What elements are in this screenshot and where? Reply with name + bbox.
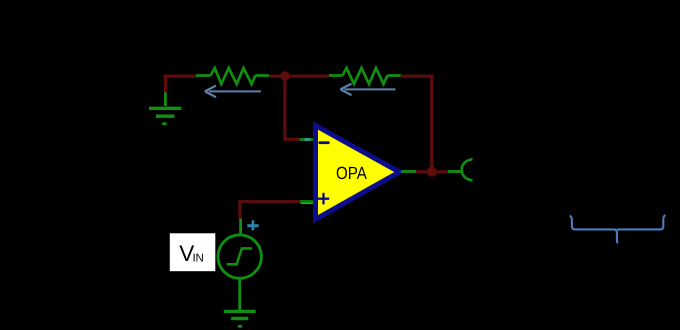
- label VIN box: [170, 233, 216, 271]
- resistor R2: [329, 68, 401, 84]
- arrow current I1 (under R1): [205, 86, 261, 98]
- ground GND1: [149, 108, 181, 125]
- source VIN circle: [218, 235, 261, 278]
- svg-text:OPA: OPA: [336, 163, 367, 183]
- wire: feedback vertical to output node: [430, 75, 433, 172]
- output connector: [462, 159, 472, 180]
- wire: R1 to R2: [269, 75, 329, 78]
- wire: green lead to output connector: [448, 170, 462, 173]
- wire: R2 to feedback corner: [401, 75, 434, 78]
- wire: output lead: [401, 170, 416, 173]
- svg-text:IN: IN: [193, 253, 204, 265]
- wire: teal segment on inverting lead: [305, 138, 311, 141]
- wire: node A down to inverting input: [283, 76, 286, 141]
- ground GND2: [224, 311, 256, 327]
- wire: vertical drop to ground: [164, 75, 167, 93]
- wire: bright edge on non-inverting lead: [301, 202, 314, 204]
- resistor R1: [196, 68, 269, 84]
- wire: green lead to inverting input: [300, 138, 315, 141]
- arrow current I2 (under R2): [340, 84, 395, 96]
- wire: VIN vertical: [238, 200, 241, 218]
- wire: VIN to ground: [238, 278, 241, 310]
- op-amp minus input marker: [319, 141, 330, 144]
- wire: VIN to non-inverting input: [238, 200, 300, 203]
- junction node A: [280, 71, 290, 81]
- wire: top horizontal from ground corner to R1: [164, 75, 198, 78]
- wire: green lead into ground: [164, 93, 167, 107]
- op-amp plus input marker: [318, 193, 329, 205]
- junction node OUT: [427, 167, 437, 177]
- op-amp U1: [316, 126, 400, 220]
- source VIN polarity plus: [247, 220, 258, 230]
- underbrace annotation: [570, 215, 666, 243]
- wire: green lead to non-inverting input: [300, 200, 315, 203]
- source VIN step waveform: [227, 248, 252, 264]
